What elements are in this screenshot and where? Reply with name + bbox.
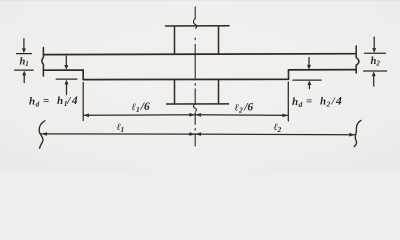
left slab break edge	[42, 48, 44, 77]
h2 down arrowhead	[372, 48, 376, 53]
hd-left down arrowhead	[64, 65, 68, 70]
l1 dimension line	[42, 133, 195, 135]
hd-left lower tick	[56, 78, 77, 80]
column left side below slab	[174, 80, 176, 105]
h2 up arrowhead	[372, 72, 376, 77]
svg-text:4: 4	[335, 96, 342, 108]
slab top line	[44, 53, 357, 56]
right end break brace	[354, 120, 361, 146]
centerline break squiggle bottom	[193, 103, 196, 111]
h1 down arrowhead	[22, 48, 26, 53]
extension line at right drop edge	[287, 82, 289, 121]
svg-text:/6: /6	[140, 101, 150, 113]
l2/6 left arrowhead	[195, 113, 201, 117]
column right side above slab	[218, 26, 220, 55]
l1/6 right arrowhead	[189, 113, 195, 117]
h2 up arrow stem	[373, 76, 375, 86]
left end break brace	[39, 121, 45, 149]
drop panel right step	[288, 70, 290, 79]
column centerline upper dash	[194, 7, 196, 19]
h1 dimension bottom tick	[15, 69, 34, 71]
svg-text:h: h	[57, 95, 63, 107]
l2 left arrowhead	[195, 132, 201, 136]
l1 right arrowhead	[189, 132, 195, 136]
h2 dimension top tick	[365, 52, 386, 54]
l1 left arrowhead	[41, 132, 47, 136]
hd-left up arrowhead	[65, 80, 69, 85]
hd-left up arrow stem	[66, 84, 68, 95]
centerline break squiggle top	[194, 19, 197, 29]
drop panel left step	[82, 70, 84, 79]
svg-text:2: 2	[277, 125, 282, 134]
svg-text:d: d	[299, 100, 303, 109]
column bottom cut line	[167, 103, 229, 105]
extension line at left drop edge	[82, 83, 84, 121]
svg-text:1: 1	[121, 125, 125, 134]
hd-right down arrow stem	[308, 58, 310, 67]
right slab break edge	[356, 46, 359, 73]
centerline dash	[194, 89, 196, 104]
centerline dot	[194, 38, 196, 40]
h1 up arrowhead	[22, 71, 26, 76]
svg-text:2: 2	[326, 100, 331, 109]
svg-text:=: =	[306, 96, 312, 108]
svg-text:4: 4	[71, 95, 78, 107]
l2/6 right arrowhead	[283, 114, 289, 118]
slab bottom line right	[289, 69, 357, 71]
h1 down arrow stem	[23, 39, 25, 49]
column right side below slab	[218, 79, 220, 104]
l1/6 dimension line	[84, 114, 195, 117]
centerline long dash through slab	[194, 44, 196, 78]
h2 down arrow stem	[373, 37, 375, 49]
centerline dash	[194, 113, 196, 125]
svg-text:h: h	[320, 96, 326, 108]
svg-text:1: 1	[25, 60, 29, 68]
h1 dimension top tick	[17, 53, 32, 55]
hd-left down arrow stem	[65, 56, 67, 66]
svg-text:/6: /6	[243, 102, 253, 114]
hd-right up arrowhead	[307, 81, 311, 86]
l1/6 left arrowhead	[83, 114, 89, 118]
svg-text:=: =	[43, 95, 49, 107]
hd-right lower tick	[293, 79, 321, 81]
h2 dimension bottom tick	[364, 70, 387, 72]
l2/6 dimension line	[196, 114, 288, 117]
column left side above slab	[174, 26, 176, 54]
l2 right arrowhead	[349, 133, 355, 137]
centerline dot	[194, 84, 196, 86]
svg-text:d: d	[36, 100, 40, 109]
hd-right down arrowhead	[307, 65, 311, 70]
h1 up arrow stem	[23, 75, 25, 83]
centerline lower dash	[194, 134, 196, 147]
slab bottom line left	[44, 69, 84, 71]
centerline dot	[194, 129, 196, 131]
drop panel bottom line	[83, 78, 288, 80]
svg-text:h: h	[292, 96, 298, 108]
svg-text:1: 1	[136, 105, 140, 114]
l2 dimension line	[196, 133, 355, 136]
svg-text:2: 2	[375, 60, 380, 68]
column top cut line	[166, 25, 230, 27]
svg-text:2: 2	[238, 106, 243, 115]
svg-text:h: h	[29, 96, 35, 108]
hd-right up arrow stem	[308, 84, 310, 88]
